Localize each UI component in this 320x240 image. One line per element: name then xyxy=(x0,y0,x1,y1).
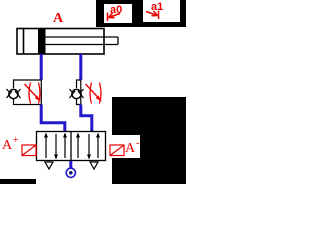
black patch right of a1 box xyxy=(180,0,186,27)
pipe: cylinder left port down xyxy=(40,54,43,80)
left flow control valve xyxy=(7,80,42,105)
air source symbol xyxy=(66,168,75,177)
svg-text:-: - xyxy=(136,138,139,149)
svg-text:A: A xyxy=(2,138,13,153)
adjust arrow xyxy=(25,84,39,99)
check circle xyxy=(9,89,18,98)
pipe: right valve down, elbow right to 5/2 valve port xyxy=(81,105,92,132)
pipe: left valve down, elbow right to 5/2 valve port xyxy=(41,105,65,132)
branch line top xyxy=(14,80,42,88)
main line xyxy=(40,80,42,105)
big black rectangle bottom-right xyxy=(112,97,186,184)
cylinder body xyxy=(17,29,104,55)
valve internals right cell xyxy=(78,134,98,158)
a1 label box (white, open to top) xyxy=(143,0,180,22)
throttle arcs xyxy=(29,83,31,104)
piston xyxy=(38,29,46,54)
exhaust triangle right xyxy=(90,162,98,169)
check seat xyxy=(7,91,13,98)
pipe: cylinder right port down xyxy=(79,54,82,80)
black patch below a1 box xyxy=(137,22,186,27)
right pilot box xyxy=(110,145,124,156)
white notch in black rect around A- label xyxy=(112,135,140,158)
right flow control valve xyxy=(70,80,84,105)
exhaust triangle left xyxy=(45,162,53,169)
svg-text:A: A xyxy=(125,141,136,156)
black strip bottom-left xyxy=(0,179,36,184)
piston rod xyxy=(45,37,118,45)
black patch behind a0 label xyxy=(96,0,137,27)
svg-text:+: + xyxy=(13,135,19,146)
black patch between a0 and a1 boxes xyxy=(137,0,143,27)
a0 label box xyxy=(104,4,133,24)
valve internals left cell xyxy=(46,134,65,158)
svg-text:a1: a1 xyxy=(151,1,163,13)
bypass bottom xyxy=(14,99,42,105)
a1 arrow (arrow pointing right into bar) xyxy=(146,11,159,20)
a0 arrow (bar + arrow pointing left) xyxy=(108,13,121,22)
source line down from valve xyxy=(69,161,72,168)
svg-text:A: A xyxy=(53,11,64,26)
left pilot box xyxy=(22,145,36,156)
5/2 way valve body xyxy=(37,132,106,161)
